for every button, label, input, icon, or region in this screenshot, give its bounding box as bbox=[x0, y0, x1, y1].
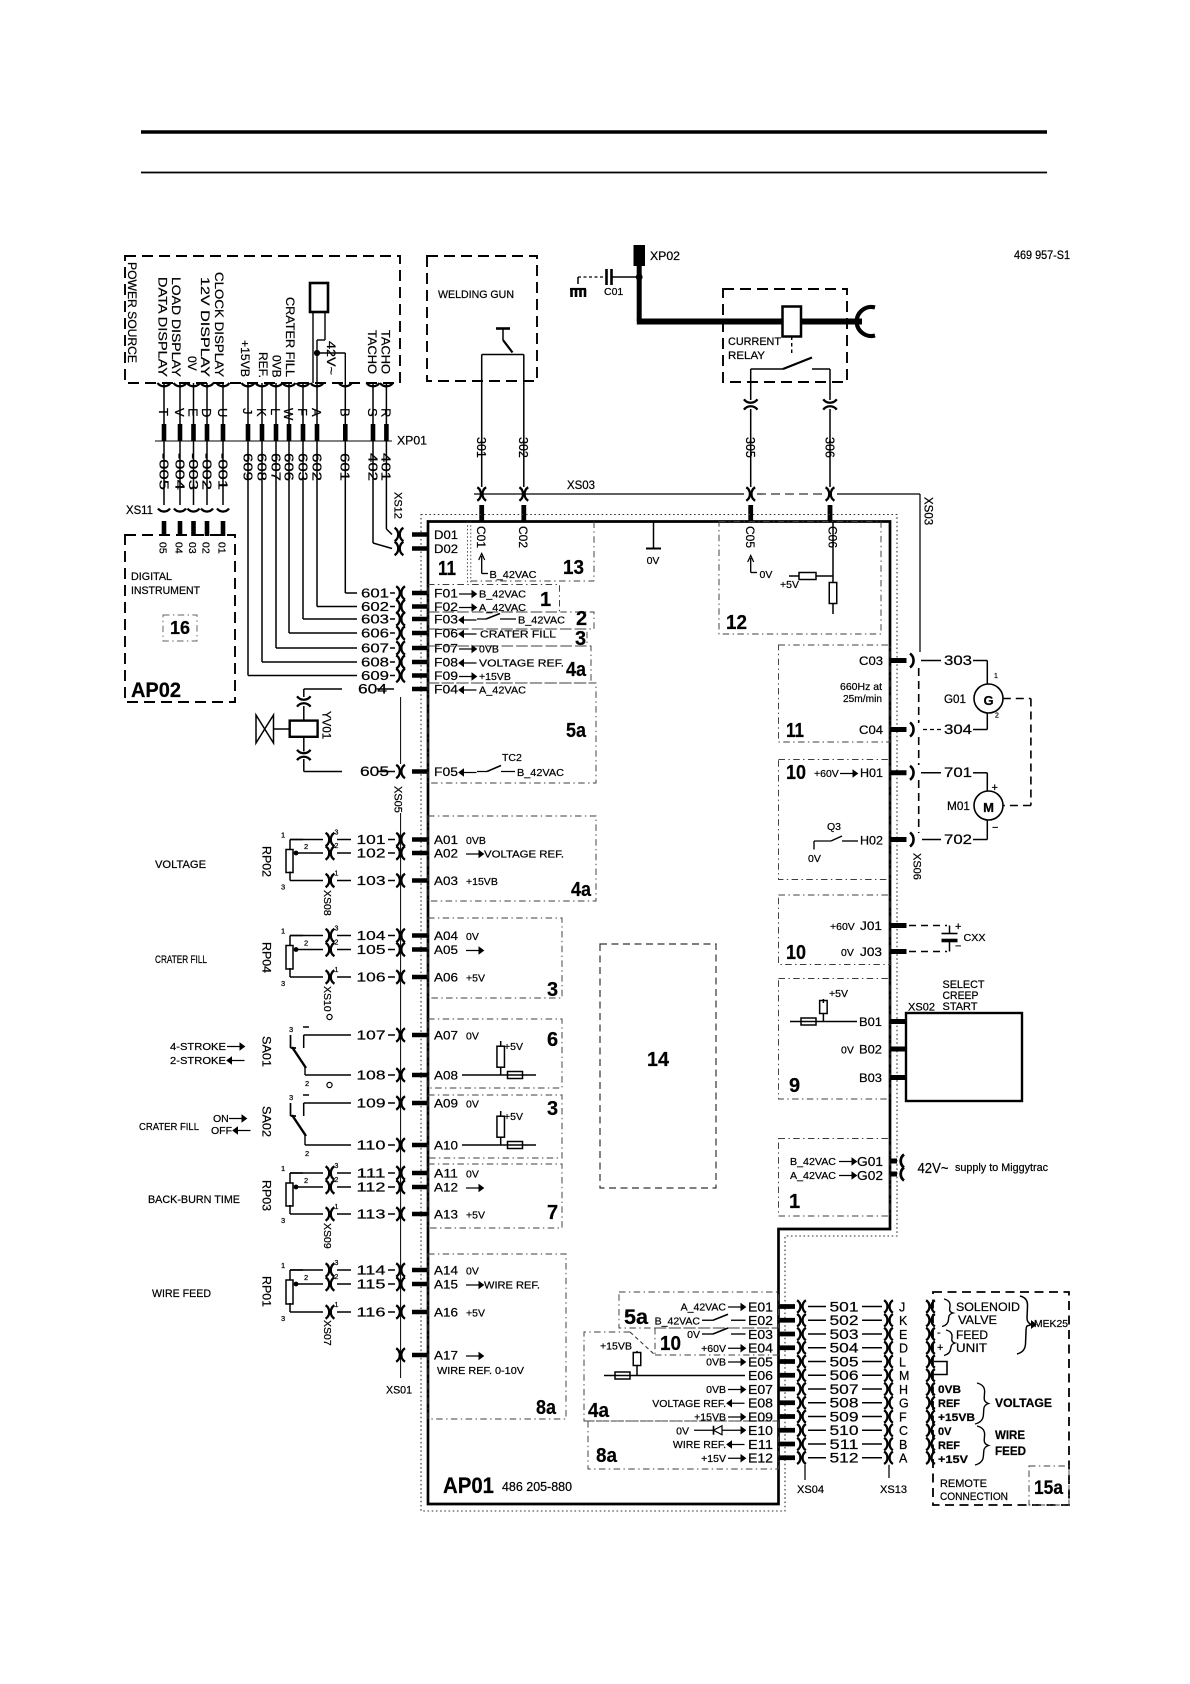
section 5a bbox=[428, 683, 596, 783]
svg-text:12: 12 bbox=[726, 612, 747, 634]
svg-text:13: 13 bbox=[563, 557, 584, 579]
svg-text:107: 107 bbox=[357, 1028, 386, 1043]
svg-text:SA02: SA02 bbox=[260, 1106, 272, 1137]
svg-text:MEK25: MEK25 bbox=[1034, 1318, 1068, 1330]
svg-text:XS03: XS03 bbox=[922, 497, 934, 525]
svg-text:303: 303 bbox=[944, 653, 972, 668]
section 11 right bbox=[779, 645, 891, 742]
svg-text:25m/min: 25m/min bbox=[843, 693, 882, 705]
pin V wire -004 bbox=[179, 383, 181, 424]
svg-text:3: 3 bbox=[335, 1163, 339, 1170]
svg-text:TACHO: TACHO bbox=[365, 330, 379, 374]
svg-text:D01: D01 bbox=[434, 528, 458, 542]
connector XS10 bbox=[326, 929, 330, 943]
svg-text:+5V: +5V bbox=[466, 973, 485, 985]
svg-text:0VB: 0VB bbox=[466, 835, 486, 847]
connector XP01 bbox=[155, 440, 392, 442]
svg-text:+60V: +60V bbox=[814, 768, 839, 780]
svg-text:103: 103 bbox=[357, 873, 386, 888]
resistor network at C06 bbox=[832, 522, 834, 583]
svg-text:M: M bbox=[983, 800, 994, 815]
svg-text:3: 3 bbox=[547, 979, 558, 1001]
net A15 →WIRE REF. bbox=[466, 1284, 479, 1286]
svg-text:304: 304 bbox=[944, 722, 973, 737]
svg-text:UNIT: UNIT bbox=[956, 1341, 988, 1355]
svg-text:A07: A07 bbox=[434, 1029, 458, 1043]
svg-text:+15V: +15V bbox=[701, 1453, 726, 1465]
wire 101 bbox=[337, 839, 351, 841]
svg-text:A10: A10 bbox=[434, 1139, 458, 1153]
svg-text:+5V: +5V bbox=[504, 1041, 523, 1053]
svg-text:K: K bbox=[254, 408, 269, 417]
svg-text:G01: G01 bbox=[857, 1154, 883, 1169]
remote connector pin M bbox=[926, 1369, 929, 1382]
pin A09 bbox=[412, 1101, 429, 1106]
svg-text:J01: J01 bbox=[860, 919, 882, 933]
wire 511 bbox=[808, 1443, 826, 1445]
section 7 bbox=[428, 1164, 562, 1228]
svg-text:E09: E09 bbox=[748, 1409, 773, 1424]
svg-text:+: + bbox=[937, 1342, 943, 1354]
svg-text:A04: A04 bbox=[434, 929, 458, 943]
power source unit box bbox=[125, 256, 400, 383]
pin F06 bbox=[412, 631, 429, 636]
svg-text:E03: E03 bbox=[748, 1327, 773, 1342]
section 4a bbox=[428, 646, 591, 683]
connector XS13 bbox=[888, 1465, 890, 1478]
svg-text:−: − bbox=[955, 941, 961, 953]
wire 401 bbox=[385, 441, 387, 529]
svg-text:XS06: XS06 bbox=[911, 853, 923, 880]
svg-text:2: 2 bbox=[335, 1177, 339, 1184]
svg-text:XS10: XS10 bbox=[321, 986, 333, 1012]
svg-text:AP02: AP02 bbox=[131, 679, 181, 702]
svg-text:5a: 5a bbox=[624, 1306, 648, 1329]
relay coil bbox=[783, 307, 802, 337]
svg-text:W: W bbox=[281, 408, 296, 421]
svg-text:B_42VAC: B_42VAC bbox=[490, 569, 537, 581]
svg-text:V: V bbox=[172, 408, 187, 417]
svg-text:XS03: XS03 bbox=[567, 480, 595, 492]
pin S wire 402 bbox=[372, 383, 374, 424]
svg-text:VOLTAGE REF.: VOLTAGE REF. bbox=[652, 1398, 726, 1410]
wire 603 bbox=[302, 441, 304, 619]
connector XS05 pin 609 bbox=[396, 669, 400, 683]
svg-text:E: E bbox=[186, 408, 201, 417]
svg-text:REF: REF bbox=[938, 1398, 960, 1410]
wire 601 bbox=[344, 441, 346, 593]
remote connector pin A bbox=[926, 1452, 929, 1465]
svg-text:3: 3 bbox=[281, 1314, 285, 1323]
svg-text:7: 7 bbox=[547, 1202, 558, 1224]
svg-text:01: 01 bbox=[216, 542, 228, 554]
svg-text:0V: 0V bbox=[647, 555, 660, 567]
svg-text:START: START bbox=[943, 1001, 978, 1013]
section 8a left bbox=[428, 1254, 566, 1419]
svg-text:XS08: XS08 bbox=[321, 890, 333, 916]
svg-text:15a: 15a bbox=[1034, 1478, 1063, 1499]
svg-text:42V~: 42V~ bbox=[918, 1161, 949, 1177]
svg-text:110: 110 bbox=[357, 1138, 386, 1153]
pin B wire 601 bbox=[344, 383, 346, 424]
svg-text:115: 115 bbox=[357, 1277, 386, 1292]
svg-text:0V: 0V bbox=[185, 356, 199, 371]
resistor network at A08 bbox=[462, 1074, 536, 1076]
connector XS13 pin F bbox=[884, 1410, 887, 1423]
svg-text:WIRE REF. 0-10V: WIRE REF. 0-10V bbox=[437, 1365, 524, 1377]
connector XS03 pin 302 bbox=[519, 487, 523, 501]
connector XS05 pin 603 bbox=[396, 612, 400, 626]
net A05 → bbox=[466, 950, 479, 952]
svg-text:A16: A16 bbox=[434, 1306, 458, 1320]
svg-text:H: H bbox=[899, 1383, 908, 1397]
pin D02 bbox=[412, 546, 429, 551]
svg-text:C05: C05 bbox=[743, 526, 757, 548]
svg-text:A: A bbox=[899, 1452, 908, 1466]
svg-text:0VB: 0VB bbox=[938, 1384, 961, 1396]
svg-text:INSTRUMENT: INSTRUMENT bbox=[131, 585, 200, 597]
svg-text:701: 701 bbox=[944, 765, 972, 780]
connector XS05 pin 601 bbox=[396, 586, 400, 600]
svg-text:2: 2 bbox=[995, 713, 999, 720]
svg-text:A11: A11 bbox=[434, 1167, 458, 1181]
svg-text:+15VB: +15VB bbox=[938, 1412, 975, 1424]
section 4a bottom bbox=[584, 1332, 779, 1421]
svg-text:ON: ON bbox=[213, 1113, 229, 1125]
wire 508 bbox=[808, 1402, 826, 1404]
svg-text:+5V: +5V bbox=[780, 579, 799, 591]
pin F05 bbox=[412, 769, 429, 774]
svg-text:305: 305 bbox=[743, 437, 757, 458]
connector XS08 bbox=[326, 833, 330, 847]
svg-text:RP03: RP03 bbox=[260, 1180, 272, 1211]
svg-text:VOLTAGE: VOLTAGE bbox=[155, 859, 206, 871]
connector XS05 pin 605 bbox=[297, 750, 311, 753]
svg-text:0V: 0V bbox=[808, 853, 821, 865]
svg-text:XS11: XS11 bbox=[126, 505, 153, 517]
svg-text:306: 306 bbox=[823, 437, 837, 458]
svg-text:E01: E01 bbox=[748, 1299, 773, 1314]
connector XS04 bbox=[804, 1465, 806, 1480]
current relay box bbox=[723, 289, 847, 382]
electrode clamp bbox=[857, 307, 875, 336]
pin A02 bbox=[412, 851, 429, 856]
svg-text:A13: A13 bbox=[434, 1208, 458, 1222]
capacitor C01 bbox=[570, 288, 586, 290]
svg-text:2: 2 bbox=[305, 1079, 309, 1088]
svg-text:03: 03 bbox=[186, 542, 198, 554]
svg-text:106: 106 bbox=[357, 970, 386, 985]
net C05 0V bbox=[748, 556, 754, 563]
pin D wire -002 bbox=[206, 383, 208, 424]
svg-text:A_42VAC: A_42VAC bbox=[681, 1302, 727, 1314]
pin A01 bbox=[412, 837, 429, 842]
wire 509 bbox=[808, 1416, 826, 1418]
svg-text:+15VB: +15VB bbox=[479, 671, 511, 683]
svg-text:113: 113 bbox=[357, 1207, 386, 1222]
svg-text:REF.: REF. bbox=[256, 352, 270, 378]
label FEED UNIT bbox=[944, 1330, 955, 1356]
svg-text:L: L bbox=[899, 1355, 906, 1369]
svg-text:F03: F03 bbox=[434, 613, 458, 627]
svg-text:3: 3 bbox=[335, 830, 339, 837]
svg-text:2-STROKE: 2-STROKE bbox=[170, 1055, 226, 1067]
svg-text:TC2: TC2 bbox=[502, 752, 522, 764]
svg-text:4a: 4a bbox=[566, 659, 587, 681]
connector XS06 cable bbox=[918, 668, 920, 723]
svg-text:E08: E08 bbox=[748, 1396, 773, 1411]
svg-text:A02: A02 bbox=[434, 847, 458, 861]
connector XS07 bbox=[326, 1263, 330, 1277]
svg-text:111: 111 bbox=[357, 1166, 386, 1181]
svg-text:E11: E11 bbox=[748, 1437, 773, 1452]
pin A11 bbox=[412, 1171, 429, 1176]
wire 306 bbox=[829, 369, 831, 400]
pin F03 bbox=[412, 617, 429, 622]
pin A05 bbox=[412, 947, 429, 952]
generator G01 bbox=[974, 684, 1003, 713]
capacitor CXX bbox=[897, 925, 947, 927]
svg-text:H01: H01 bbox=[860, 766, 883, 780]
svg-text:+: + bbox=[955, 921, 961, 933]
remote connector pin L bbox=[926, 1355, 929, 1368]
svg-text:F: F bbox=[295, 408, 310, 416]
svg-text:A_42VAC: A_42VAC bbox=[479, 602, 526, 614]
jumper L-M bbox=[934, 1362, 947, 1375]
svg-text:9: 9 bbox=[789, 1075, 800, 1097]
svg-text:XS09: XS09 bbox=[321, 1223, 333, 1249]
pin J wire 609 bbox=[247, 383, 249, 424]
svg-text:G02: G02 bbox=[857, 1168, 883, 1183]
svg-text:A17: A17 bbox=[434, 1349, 458, 1363]
svg-text:0VB: 0VB bbox=[270, 355, 284, 378]
wire 503 bbox=[808, 1333, 826, 1335]
svg-text:YV01: YV01 bbox=[320, 711, 332, 739]
svg-text:04: 04 bbox=[173, 542, 185, 554]
svg-text:CXX: CXX bbox=[964, 932, 986, 944]
svg-text:05: 05 bbox=[157, 542, 169, 554]
svg-text:0VB: 0VB bbox=[479, 644, 499, 656]
connector 42V supply bbox=[901, 1155, 904, 1168]
connector XS05 pin 602 bbox=[396, 600, 400, 614]
section 1 bbox=[428, 585, 560, 613]
svg-text:11: 11 bbox=[438, 558, 456, 580]
wire 602 bbox=[316, 441, 318, 607]
wire 502 bbox=[808, 1319, 826, 1321]
pin A10 bbox=[412, 1143, 429, 1148]
svg-text:CRATER FILL: CRATER FILL bbox=[283, 297, 297, 377]
pin A15 bbox=[412, 1282, 429, 1287]
pin T wire -005 bbox=[163, 383, 165, 424]
motor M01 bbox=[974, 791, 1003, 820]
section 10 bottom bbox=[655, 1328, 779, 1355]
svg-text:2: 2 bbox=[335, 843, 339, 850]
wire 702 bbox=[986, 820, 988, 840]
svg-text:4a: 4a bbox=[571, 879, 592, 901]
svg-text:1: 1 bbox=[335, 1302, 339, 1309]
svg-text:3: 3 bbox=[335, 1260, 339, 1267]
svg-text:11: 11 bbox=[786, 720, 804, 742]
relay contact bbox=[751, 368, 783, 370]
net A17 wire ref 0-10V bbox=[466, 1355, 479, 1357]
wire 112 bbox=[337, 1186, 351, 1188]
svg-text:C: C bbox=[899, 1424, 908, 1438]
svg-text:VOLTAGE: VOLTAGE bbox=[995, 1396, 1052, 1410]
svg-text:0V: 0V bbox=[676, 1425, 689, 1437]
svg-text:A08: A08 bbox=[434, 1069, 458, 1083]
section 3 lower bbox=[428, 1095, 562, 1158]
svg-text:F01: F01 bbox=[434, 587, 458, 601]
svg-text:607: 607 bbox=[361, 641, 389, 656]
svg-text:469 957-S1: 469 957-S1 bbox=[1014, 250, 1070, 262]
section 3 bbox=[428, 629, 587, 646]
pin R wire 401 bbox=[385, 383, 387, 424]
svg-text:FEED: FEED bbox=[956, 1328, 988, 1342]
svg-text:DATA DISPLAY: DATA DISPLAY bbox=[156, 277, 170, 377]
svg-text:F: F bbox=[899, 1410, 907, 1424]
svg-text:J: J bbox=[899, 1300, 905, 1314]
pin L wire 607 bbox=[275, 383, 277, 424]
crater fill device bbox=[310, 283, 328, 312]
svg-text:H02: H02 bbox=[860, 834, 883, 848]
net A12 → bbox=[466, 1187, 479, 1189]
wire 510 bbox=[808, 1429, 826, 1431]
svg-text:L: L bbox=[268, 408, 283, 415]
svg-text:486 205-880: 486 205-880 bbox=[502, 1480, 572, 1494]
svg-text:+60V: +60V bbox=[701, 1343, 726, 1355]
wire 102 bbox=[337, 852, 351, 854]
svg-text:CONNECTION: CONNECTION bbox=[940, 1491, 1008, 1503]
pin A07 bbox=[412, 1033, 429, 1038]
wire 303 bbox=[910, 654, 914, 668]
svg-text:3: 3 bbox=[575, 628, 586, 650]
bracket MEK25 bbox=[1017, 1296, 1032, 1354]
wire 501 bbox=[808, 1306, 826, 1308]
svg-text:10: 10 bbox=[786, 942, 806, 964]
svg-text:114: 114 bbox=[357, 1263, 386, 1278]
svg-text:CLOCK DISPLAY: CLOCK DISPLAY bbox=[212, 272, 226, 377]
wire 607 bbox=[275, 441, 277, 648]
svg-text:E: E bbox=[899, 1328, 907, 1342]
svg-text:−: − bbox=[992, 822, 998, 834]
svg-text:E12: E12 bbox=[748, 1451, 773, 1466]
svg-text:104: 104 bbox=[357, 928, 386, 943]
wire 111 bbox=[337, 1172, 351, 1174]
svg-text:+15VB: +15VB bbox=[238, 340, 252, 377]
svg-text:B_42VAC: B_42VAC bbox=[655, 1315, 701, 1327]
pin A wire 602 bbox=[316, 383, 318, 424]
svg-text:0V: 0V bbox=[466, 1031, 479, 1043]
section 13 bbox=[593, 522, 595, 582]
pin D01 bbox=[412, 532, 429, 537]
svg-text:CRATER FILL: CRATER FILL bbox=[480, 629, 556, 641]
wire 609 bbox=[247, 441, 249, 676]
svg-text:XS02: XS02 bbox=[908, 1002, 935, 1014]
svg-text:+5V: +5V bbox=[466, 1308, 485, 1320]
svg-text:+15VB: +15VB bbox=[466, 876, 498, 888]
wire 115 bbox=[337, 1283, 351, 1285]
wire 302 bbox=[523, 355, 525, 488]
svg-text:+5V: +5V bbox=[829, 988, 848, 1000]
pin F04 bbox=[412, 687, 429, 692]
svg-text:Q3: Q3 bbox=[827, 821, 841, 833]
svg-text:2: 2 bbox=[304, 842, 308, 851]
wire 504 bbox=[808, 1347, 826, 1349]
svg-text:606: 606 bbox=[361, 626, 389, 641]
svg-text:0V: 0V bbox=[466, 1266, 479, 1278]
connector XP02 bbox=[634, 245, 646, 266]
svg-text:2: 2 bbox=[305, 1149, 309, 1158]
svg-text:LOAD DISPLAY: LOAD DISPLAY bbox=[169, 277, 183, 377]
pin A17 bbox=[412, 1353, 429, 1358]
remote connector pin B bbox=[926, 1438, 929, 1451]
svg-text:42V~: 42V~ bbox=[324, 341, 338, 375]
svg-text:RP04: RP04 bbox=[260, 942, 272, 974]
svg-text:VALVE: VALVE bbox=[958, 1313, 997, 1327]
power source connector sockets bbox=[158, 383, 171, 386]
svg-text:4-STROKE: 4-STROKE bbox=[170, 1041, 226, 1053]
svg-text:E07: E07 bbox=[748, 1382, 773, 1397]
connector XS13 pin B bbox=[884, 1438, 887, 1451]
welding gun box bbox=[427, 256, 537, 381]
wire 605 bbox=[303, 759, 305, 772]
svg-text:1: 1 bbox=[281, 1164, 285, 1173]
net F08 VOLTAGE REF. bbox=[464, 662, 477, 664]
svg-text:302: 302 bbox=[516, 437, 530, 458]
svg-text:0V: 0V bbox=[466, 931, 479, 943]
section 14 bbox=[600, 944, 716, 1188]
remote connector pin H bbox=[926, 1383, 929, 1396]
connector XS13 pin A bbox=[884, 1452, 887, 1465]
net A02 →VOLTAGE REF. bbox=[466, 853, 479, 855]
svg-text:112: 112 bbox=[357, 1180, 386, 1195]
svg-text:SA01: SA01 bbox=[260, 1036, 272, 1067]
svg-text:+15VB: +15VB bbox=[694, 1412, 726, 1424]
pin A13 bbox=[412, 1212, 429, 1217]
wire 506 bbox=[808, 1374, 826, 1376]
pin A06 bbox=[412, 975, 429, 980]
wire 105 bbox=[337, 949, 351, 951]
connector XS05 pin 604 bbox=[297, 696, 311, 699]
svg-text:RELAY: RELAY bbox=[728, 350, 766, 362]
connector XS13 pin D bbox=[884, 1342, 887, 1355]
remote connector pin E bbox=[926, 1328, 929, 1341]
svg-text:XS05: XS05 bbox=[392, 786, 404, 813]
wire 402 bbox=[372, 441, 374, 543]
wire 606 bbox=[288, 441, 290, 633]
svg-text:1: 1 bbox=[281, 1261, 285, 1270]
svg-text:+5V: +5V bbox=[504, 1111, 523, 1123]
section 2 bbox=[428, 612, 594, 629]
svg-text:OFF: OFF bbox=[211, 1125, 232, 1137]
svg-text:0V: 0V bbox=[687, 1329, 700, 1341]
net F09 +15VB bbox=[459, 676, 472, 678]
svg-text:E06: E06 bbox=[748, 1368, 773, 1383]
wire 701 bbox=[910, 766, 914, 780]
svg-text:CRATER FILL: CRATER FILL bbox=[139, 1121, 199, 1133]
svg-text:0VB: 0VB bbox=[706, 1384, 726, 1396]
connector XS09 bbox=[326, 1166, 330, 1180]
remote connector pin G bbox=[926, 1397, 929, 1410]
section 6 bbox=[428, 1019, 562, 1088]
wire 604 bbox=[377, 688, 394, 690]
svg-text:105: 105 bbox=[357, 942, 386, 957]
svg-text:XP02: XP02 bbox=[650, 251, 680, 263]
svg-text:2: 2 bbox=[304, 1273, 308, 1282]
svg-text:+5V: +5V bbox=[466, 1210, 485, 1222]
svg-text:301: 301 bbox=[474, 437, 488, 458]
svg-text:2: 2 bbox=[304, 939, 308, 948]
